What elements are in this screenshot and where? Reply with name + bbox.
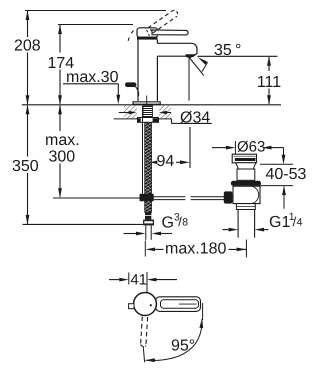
svg-text:max.180: max.180 — [165, 241, 226, 258]
svg-text:35 °: 35 ° — [214, 42, 241, 59]
svg-text:8: 8 — [182, 217, 188, 229]
svg-text:max.: max. — [45, 132, 80, 149]
svg-text:4: 4 — [297, 217, 303, 229]
svg-text:111: 111 — [257, 74, 281, 91]
svg-text:94: 94 — [157, 153, 175, 170]
svg-text:41: 41 — [130, 271, 147, 288]
svg-text:95°: 95° — [171, 338, 195, 355]
svg-text:300: 300 — [49, 149, 76, 166]
svg-text:G: G — [162, 215, 174, 232]
svg-text:40-53: 40-53 — [266, 166, 307, 183]
svg-text:Ø63: Ø63 — [237, 138, 265, 155]
svg-text:208: 208 — [14, 38, 41, 55]
svg-text:350: 350 — [12, 158, 39, 175]
svg-text:G1: G1 — [269, 214, 290, 231]
